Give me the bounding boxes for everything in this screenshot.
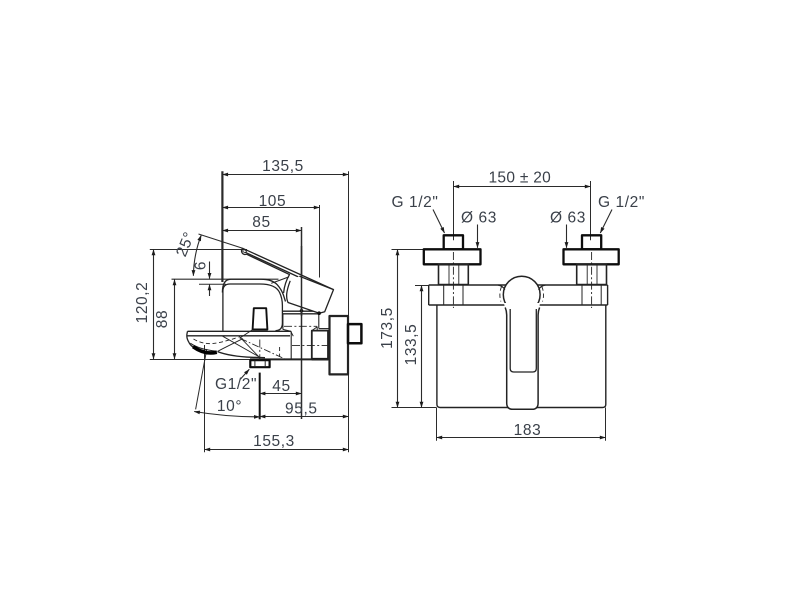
leader dia63 left <box>477 225 479 248</box>
spout belly curve <box>218 352 266 358</box>
extension line: wall datum (135,5 / 95,5 / 155,3 right) <box>348 171 350 452</box>
body bottom edge <box>250 358 330 360</box>
nut chamfer wedge <box>312 327 317 331</box>
neck box verticals <box>283 313 319 329</box>
wall stub G1/2 <box>348 324 361 343</box>
handle stem outline <box>505 308 539 410</box>
extension line: spout tip vertical (135,5/105/85 left datum) <box>221 171 223 282</box>
spout top plate lower line <box>188 335 291 337</box>
leader G1/2 right <box>600 210 612 234</box>
handle inner face <box>510 309 536 372</box>
extension line: body bottom (120,2 / 88 bottom ref) <box>150 359 250 361</box>
dimension 183 <box>437 437 606 439</box>
extension line: 85 datum over blade <box>301 246 303 316</box>
extension line: body top rim (6 lower ref) <box>199 283 226 285</box>
dome bar fillet left <box>498 285 505 290</box>
diverter knob <box>253 308 268 329</box>
closed lever silhouette <box>222 279 285 301</box>
inlet nipple right <box>582 235 601 249</box>
union column left <box>444 285 463 305</box>
svg-text:G 1/2": G 1/2" <box>391 194 438 211</box>
crossbar bottom edge <box>429 304 608 306</box>
10 degree slant ray <box>196 349 207 409</box>
crossbar top edge <box>429 284 608 286</box>
spout outlet bold lip <box>193 347 217 353</box>
spout outlet nipple G1/2 <box>250 360 269 367</box>
valve centerline upper dash-dot <box>284 325 317 327</box>
spout hidden dashed trough <box>194 337 239 344</box>
extension line: nipple centerline bold (45 / 95,5 left) <box>259 373 261 420</box>
extension line: handle front datum (85 / 45 right) <box>301 227 303 419</box>
handle dome <box>503 276 540 313</box>
hex nut left facets <box>449 264 459 284</box>
lever top edge (open position) <box>243 248 334 289</box>
spout 3d edge 1 <box>223 336 260 357</box>
lever bottom edge <box>247 254 290 293</box>
svg-text:85: 85 <box>252 214 270 231</box>
leader dia63 right <box>566 225 568 248</box>
extension line: 105 right datum <box>319 205 321 278</box>
extension line: right inlet centerline <box>590 181 592 240</box>
25 degree lever extension line <box>199 234 244 248</box>
hex nut left <box>439 264 469 284</box>
svg-text:G1/2": G1/2" <box>215 376 257 393</box>
waterfall channel edge <box>218 339 244 352</box>
hex nut bottom bold <box>312 358 328 361</box>
dimension 120,2 <box>153 250 155 360</box>
escutcheon side view <box>330 316 349 374</box>
extension line: left inlet centerline <box>453 181 455 240</box>
svg-text:Ø 63: Ø 63 <box>461 209 497 226</box>
blade of handle (open) <box>287 276 334 313</box>
hex nut right facets <box>587 264 597 284</box>
spout plate right step <box>291 331 294 336</box>
dimension 105 <box>222 207 319 209</box>
svg-text:6: 6 <box>193 261 210 270</box>
leader G1/2 spout nipple <box>240 369 249 379</box>
svg-text:150 ± 20: 150 ± 20 <box>488 170 551 187</box>
svg-text:105: 105 <box>259 193 287 210</box>
hex nut side view <box>312 331 328 360</box>
main body <box>437 305 606 408</box>
hex nut right <box>577 264 607 284</box>
valve step lines <box>283 310 319 312</box>
extension line: body bottom left (bottom ref) <box>392 407 437 409</box>
union body vertical <box>290 331 292 359</box>
dimension 6 lower arrow <box>209 285 211 296</box>
nipple centerline dash-dot <box>259 340 261 361</box>
svg-text:120,2: 120,2 <box>134 282 151 324</box>
dome bar fillet right <box>539 285 546 290</box>
collar line to escutcheon <box>319 328 330 330</box>
svg-text:95,5: 95,5 <box>285 401 318 418</box>
extension line: spout outlet tip vertical (155,3 left) <box>204 345 206 452</box>
extension line: crossbar top (133,5 top ref) <box>415 285 428 287</box>
dimension 85 <box>222 230 301 232</box>
10 degree arc <box>194 412 260 417</box>
extension line: escutcheon top (173,5 top ref) <box>392 249 424 251</box>
leader G1/2 left <box>433 210 445 234</box>
extension line: closed lever top (88 top ref) <box>172 278 279 280</box>
spout 3d edge 3 <box>240 330 253 339</box>
union column right <box>582 285 601 305</box>
nipple thread ticks <box>255 361 265 368</box>
hidden dash-dot flow diagonal <box>241 339 285 359</box>
extension line: body right bottom vertical (183 right) <box>605 408 607 441</box>
svg-text:Ø 63: Ø 63 <box>550 209 586 226</box>
lever tip cap <box>242 248 247 254</box>
svg-text:155,3: 155,3 <box>253 433 295 450</box>
spout top plate upper line <box>188 330 291 332</box>
dimension 88 <box>174 280 176 360</box>
blade corner dot A <box>300 309 304 313</box>
svg-text:135,5: 135,5 <box>262 158 304 175</box>
inlet nipple left <box>444 235 463 249</box>
spout 3d edge 2 <box>239 336 258 356</box>
spout plate left end <box>187 331 190 344</box>
inlet union centerline left <box>452 252 454 308</box>
valve centerline lower dash-dot <box>292 344 330 346</box>
extension line: body left bottom vertical (183 left) <box>436 408 438 441</box>
dimension 135,5 <box>222 174 348 176</box>
escutcheon right <box>564 249 619 264</box>
svg-text:173,5: 173,5 <box>379 307 396 349</box>
hidden dashed vertical <box>279 347 281 357</box>
dimension 6 upper arrow <box>209 262 211 279</box>
svg-text:88: 88 <box>154 310 171 328</box>
spout underside curve <box>190 344 194 347</box>
svg-text:G 1/2": G 1/2" <box>598 194 645 211</box>
lever tip inner oval <box>242 249 246 253</box>
dimension 133,5 <box>421 286 423 408</box>
svg-text:45: 45 <box>272 378 290 395</box>
svg-text:133,5: 133,5 <box>403 324 420 366</box>
body head <box>223 284 283 331</box>
neck to spout edge <box>283 329 291 331</box>
blade corner dot B <box>317 311 321 315</box>
crossbar right cap <box>607 285 609 305</box>
inlet union centerline right <box>591 252 593 308</box>
hidden dashed cartridge ring <box>500 286 544 301</box>
extension line: top of open lever (120,2 top ref) <box>150 249 247 251</box>
lever inner edge <box>245 252 299 277</box>
spout tip upper arc <box>190 343 217 351</box>
crossbar left cap <box>428 285 430 305</box>
dimension 45 <box>260 393 302 395</box>
dimension 155,3 <box>205 449 349 451</box>
svg-text:183: 183 <box>514 422 542 439</box>
dimension 150 +- 20 <box>454 186 591 188</box>
escutcheon left <box>424 249 481 264</box>
25 degree arc <box>193 235 201 276</box>
dimension 173,5 <box>397 250 399 408</box>
dimension 95,5 <box>260 416 349 418</box>
handle stem outer <box>504 303 540 409</box>
svg-text:10°: 10° <box>217 398 242 415</box>
pivot boss curve <box>271 277 289 283</box>
